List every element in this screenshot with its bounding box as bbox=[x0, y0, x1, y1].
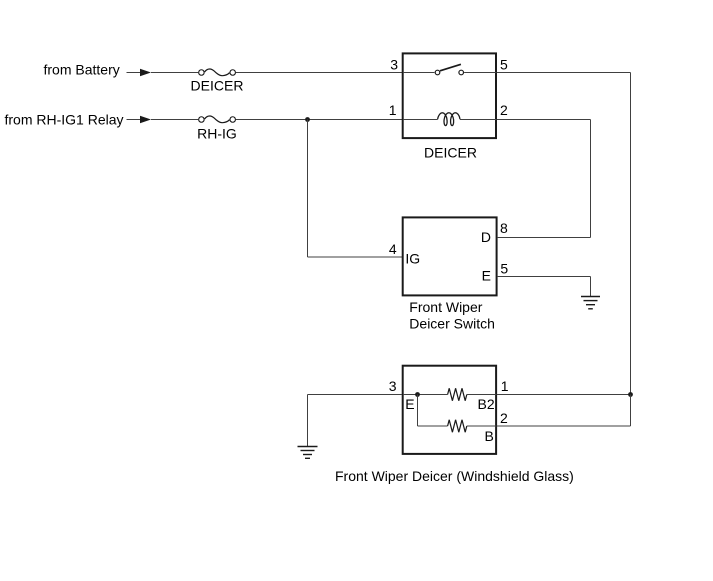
fuse RH-IG bbox=[199, 116, 236, 123]
wire pin2 up to junction bbox=[630, 395, 632, 427]
wire pin2 right bbox=[497, 119, 591, 121]
svg-text:3: 3 bbox=[389, 378, 397, 394]
svg-text:2: 2 bbox=[500, 410, 508, 426]
wire branch to resistor B bbox=[418, 425, 448, 427]
wire fuse to relay pin 1 bbox=[236, 119, 402, 121]
relay switch contacts bbox=[435, 64, 463, 74]
junction node IG branch bbox=[305, 117, 310, 122]
ground left bbox=[298, 447, 318, 459]
svg-text:from Battery: from Battery bbox=[44, 62, 120, 78]
wire battery to fuse bbox=[151, 72, 198, 74]
junction node bus bbox=[628, 392, 633, 397]
wire pin1 to coil bbox=[403, 119, 438, 121]
svg-text:Front Wiper Deicer (Windshield: Front Wiper Deicer (Windshield Glass) bbox=[335, 468, 574, 484]
wire E to ground bbox=[497, 276, 591, 278]
wire right bus vertical bbox=[630, 73, 632, 395]
svg-text:DEICER: DEICER bbox=[424, 145, 477, 161]
wire D to pin2 bus bbox=[497, 237, 591, 239]
svg-text:RH-IG: RH-IG bbox=[197, 126, 237, 142]
wire pin3 left bbox=[308, 394, 403, 396]
wire resistor B to pin2 bbox=[467, 425, 496, 427]
resistor B bbox=[448, 420, 467, 432]
front wiper deicer switch box bbox=[403, 217, 497, 295]
wire E to resistor B2 bbox=[403, 394, 448, 396]
svg-text:4: 4 bbox=[389, 241, 397, 257]
svg-text:5: 5 bbox=[500, 57, 508, 73]
wire resistor B2 to pin1 bbox=[467, 394, 496, 396]
wire pin2 down to D bbox=[590, 120, 592, 238]
wire pin3 to switch bbox=[403, 72, 434, 74]
wire relay-arrow to fuse bbox=[151, 119, 198, 121]
wire switch to pin5 bbox=[464, 72, 496, 74]
svg-text:8: 8 bbox=[500, 220, 508, 236]
relay coil bbox=[438, 113, 460, 126]
svg-text:1: 1 bbox=[501, 378, 509, 394]
svg-text:2: 2 bbox=[500, 102, 508, 118]
wire fuse to relay pin 3 bbox=[236, 72, 402, 74]
arrow from Battery bbox=[127, 69, 152, 77]
svg-text:5: 5 bbox=[500, 261, 508, 277]
svg-text:IG: IG bbox=[405, 250, 420, 266]
svg-text:D: D bbox=[481, 229, 491, 245]
svg-text:3: 3 bbox=[390, 57, 398, 73]
resistor B2 bbox=[448, 388, 467, 400]
wire E down bbox=[590, 277, 592, 297]
svg-text:from RH-IG1 Relay: from RH-IG1 Relay bbox=[5, 112, 124, 128]
arrow from RH-IG1 Relay bbox=[127, 116, 152, 124]
svg-text:DEICER: DEICER bbox=[191, 78, 244, 94]
wire to IG pin 4 bbox=[308, 256, 403, 258]
relay box DEICER bbox=[403, 53, 496, 138]
svg-text:Front Wiper: Front Wiper bbox=[409, 299, 482, 315]
wire pin1 to bus junction bbox=[497, 394, 631, 396]
wire pin5 to right bus bbox=[497, 72, 631, 74]
svg-text:E: E bbox=[405, 396, 414, 412]
wire junction down to IG bbox=[307, 120, 309, 258]
svg-text:Deicer Switch: Deicer Switch bbox=[409, 316, 495, 332]
front wiper deicer box bbox=[403, 366, 496, 454]
wire coil to pin2 bbox=[460, 119, 496, 121]
junction node E bbox=[415, 392, 420, 397]
svg-text:1: 1 bbox=[389, 102, 397, 118]
wire E branch down bbox=[417, 395, 419, 427]
fuse DEICER bbox=[199, 69, 236, 76]
ground right bbox=[581, 297, 600, 309]
svg-text:E: E bbox=[482, 268, 491, 284]
svg-text:B2: B2 bbox=[478, 396, 495, 412]
wire down to ground left bbox=[307, 395, 309, 447]
svg-text:B: B bbox=[485, 428, 494, 444]
wire pin2 right bbox=[497, 425, 631, 427]
